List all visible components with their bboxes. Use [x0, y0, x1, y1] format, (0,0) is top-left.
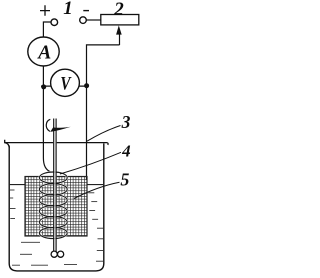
svg-text:3: 3 [121, 112, 131, 132]
svg-text:A: A [36, 43, 51, 64]
svg-text:V: V [60, 73, 71, 94]
svg-text:5: 5 [120, 170, 129, 190]
svg-text:1: 1 [63, 0, 73, 19]
svg-text:2: 2 [113, 0, 124, 20]
svg-text:4: 4 [121, 142, 131, 161]
